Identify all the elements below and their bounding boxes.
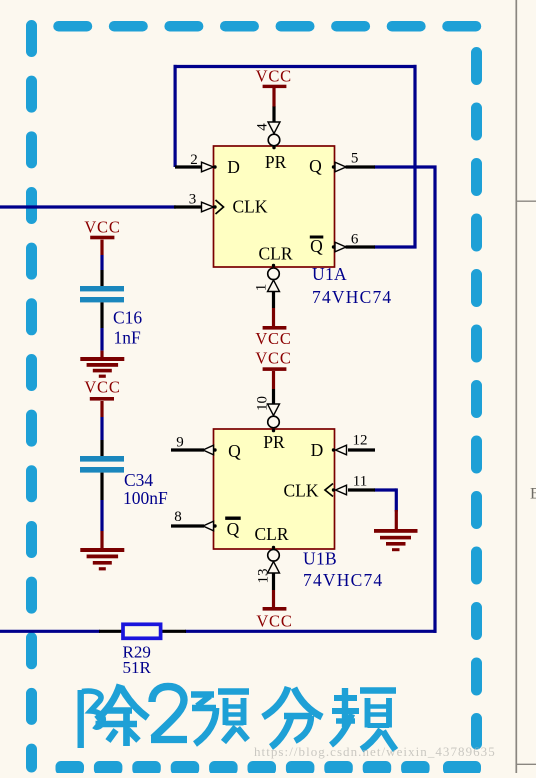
pin number 13 rotated <box>255 569 271 584</box>
svg-text:74VHC74: 74VHC74 <box>312 287 392 307</box>
pin 6 direction arrow <box>335 242 346 252</box>
pin number 3 <box>189 192 197 208</box>
title glyph 分 <box>263 687 322 747</box>
svg-text:Q: Q <box>310 236 323 256</box>
title glyph 频 <box>331 688 396 750</box>
svg-text:8: 8 <box>174 509 182 525</box>
pin number 5 <box>351 151 359 167</box>
flip-flop U1B body <box>214 429 335 549</box>
pin 13 arrow <box>268 562 280 574</box>
svg-text:D: D <box>227 157 240 177</box>
wire vertical Q to bottom <box>433 166 436 633</box>
title glyph 除 <box>81 685 148 749</box>
VCC symbol above C34 <box>84 378 120 401</box>
svg-text:5: 5 <box>351 151 359 167</box>
svg-text:CLK: CLK <box>233 197 268 217</box>
svg-text:1nF: 1nF <box>114 328 142 348</box>
svg-text:12: 12 <box>353 433 368 449</box>
pin R29 left stub <box>99 630 124 633</box>
capacitor C34 <box>80 456 124 473</box>
pin 13 vertical stub <box>272 573 275 607</box>
U1B pin name PR <box>263 432 285 452</box>
C16 top lead <box>100 240 103 286</box>
U1A comment 74VHC74 <box>312 287 392 307</box>
svg-text:1: 1 <box>253 284 269 292</box>
pin 13 CLR bubble <box>268 550 280 562</box>
wire pin6 horizontal <box>374 245 417 248</box>
U1A clock chevron <box>216 200 224 214</box>
pin 3 direction arrow <box>202 202 214 212</box>
R29 value 51R <box>123 658 152 677</box>
wire vertical Qbar feedback <box>413 65 416 249</box>
pin number 8 <box>174 509 182 525</box>
svg-text:U1B: U1B <box>303 549 337 569</box>
pin 11 direction arrow <box>336 485 347 495</box>
pin 2 stub <box>175 165 202 168</box>
U1B pin name Q <box>228 441 241 461</box>
svg-text:74VHC74: 74VHC74 <box>303 570 383 590</box>
pin 9 stub <box>171 448 204 451</box>
svg-text:Q: Q <box>228 441 241 461</box>
pin 6 stub <box>346 245 376 248</box>
svg-text:Q: Q <box>309 156 322 176</box>
svg-text:https://blog.csdn.net/weixin_4: https://blog.csdn.net/weixin_43789635 <box>254 744 496 759</box>
pin R29 right stub <box>161 630 186 633</box>
svg-text:PR: PR <box>263 432 285 452</box>
pin 11 stub <box>348 488 375 491</box>
pin 8 direction arrow <box>203 521 214 531</box>
dashed highlight border right <box>471 53 482 745</box>
U1B clock chevron <box>325 484 333 497</box>
sheet zone letter B <box>530 486 536 503</box>
wire CLK input from left edge <box>0 205 176 208</box>
dashed highlight border bottom <box>56 761 482 775</box>
svg-text:C16: C16 <box>113 308 142 328</box>
capacitor C16 <box>80 286 124 302</box>
pin number 2 <box>190 152 198 168</box>
pin 8 stub <box>171 524 204 527</box>
U1A pin name CLK <box>233 197 268 217</box>
pin 12 direction arrow <box>336 445 347 455</box>
svg-text:3: 3 <box>189 192 197 208</box>
pin number 1 rotated <box>253 284 269 292</box>
pin 1 arrow <box>268 280 280 292</box>
svg-text:9: 9 <box>176 435 184 451</box>
pin 12 stub <box>348 448 375 451</box>
svg-text:VCC: VCC <box>256 612 292 631</box>
R29 designator <box>123 643 151 662</box>
pin number 9 <box>176 435 184 451</box>
U1A pin name D <box>227 157 240 177</box>
pin 4 arrow <box>268 122 280 134</box>
wire pin11 to ground <box>374 488 397 511</box>
svg-text:D: D <box>311 440 324 460</box>
svg-text:100nF: 100nF <box>123 488 168 508</box>
dashed highlight border left <box>26 26 37 768</box>
wire vertical to pin2 D <box>174 65 177 167</box>
svg-text:VCC: VCC <box>255 329 291 348</box>
pin 3 stub <box>174 205 202 208</box>
svg-text:VCC: VCC <box>84 218 120 237</box>
svg-text:2: 2 <box>190 152 198 168</box>
pin 5 direction arrow <box>335 162 346 172</box>
svg-text:C34: C34 <box>124 470 153 490</box>
U1A pin name CLR <box>258 243 292 263</box>
svg-text:CLK: CLK <box>284 481 319 501</box>
svg-text:B: B <box>530 486 536 503</box>
svg-text:6: 6 <box>351 232 359 248</box>
pin 9 direction arrow <box>203 445 214 455</box>
wire bottom left of R29 <box>0 630 100 633</box>
watermark <box>254 744 496 759</box>
VCC symbol above U1A <box>256 67 292 89</box>
svg-text:U1A: U1A <box>312 264 347 284</box>
pin 2 direction arrow <box>202 162 214 172</box>
svg-text:Q: Q <box>227 519 240 539</box>
pin 1 CLR bubble <box>268 268 280 280</box>
pin 10 vertical stub <box>272 371 275 404</box>
wire bottom right of R29 <box>185 630 437 633</box>
C16 value 1nF <box>114 328 142 348</box>
pin number 12 <box>353 433 368 449</box>
title glyph 2 <box>151 687 187 740</box>
VCC symbol below U1B inverted <box>256 607 292 631</box>
pin 10 arrow <box>268 404 280 416</box>
svg-text:4: 4 <box>254 123 270 131</box>
C34 designator <box>124 470 153 490</box>
svg-text:CLR: CLR <box>258 243 292 263</box>
sheet frame tick top <box>516 200 536 202</box>
pin number 4 rotated <box>254 123 270 131</box>
ground below C16 <box>80 357 124 378</box>
U1A pin name Q <box>309 156 322 176</box>
svg-text:51R: 51R <box>123 658 152 677</box>
pin 10 PR bubble <box>268 416 280 428</box>
sheet frame gray vertical line <box>515 0 517 773</box>
C16 designator <box>113 308 142 328</box>
svg-text:VCC: VCC <box>255 349 291 368</box>
U1A pin name PR <box>265 152 287 172</box>
U1B pin name Qbar <box>225 517 241 540</box>
ground below C34 <box>80 548 124 570</box>
U1B pin name CLK <box>284 481 319 501</box>
pin number 11 <box>353 474 367 490</box>
pin number 6 <box>351 232 359 248</box>
U1B designator <box>303 549 337 569</box>
pin 4 vertical stub <box>272 87 275 122</box>
pin 5 stub <box>346 165 376 168</box>
VCC symbol below U1A inverted <box>255 326 291 348</box>
title glyph 预 <box>191 692 249 745</box>
C34 bottom lead <box>100 473 103 549</box>
C34 value 100nF <box>123 488 168 508</box>
U1A designator <box>312 264 347 284</box>
U1B pin name D <box>311 440 324 460</box>
U1A pin name Qbar <box>310 236 324 257</box>
pin number 10 rotated <box>254 396 270 411</box>
resistor R29 <box>123 624 161 638</box>
svg-text:11: 11 <box>353 474 367 490</box>
ground at pin 11 <box>374 529 418 551</box>
pin 1 vertical stub <box>272 292 275 327</box>
svg-text:CLR: CLR <box>254 524 288 544</box>
VCC symbol above U1B <box>255 349 291 371</box>
pin 4 PR bubble <box>268 134 280 146</box>
pin 11 ground stem <box>395 510 398 530</box>
sheet frame tick bottom <box>516 763 536 765</box>
U1B comment 74VHC74 <box>303 570 383 590</box>
C16 bottom lead <box>100 302 103 358</box>
C34 top lead <box>100 401 103 456</box>
wire top feedback horizontal <box>174 65 417 68</box>
dashed highlight border top <box>59 21 477 32</box>
U1B pin name CLR <box>254 524 288 544</box>
flip-flop U1A body <box>214 146 335 267</box>
pin root dots <box>213 146 335 549</box>
wire pin5 horizontal <box>374 165 437 168</box>
svg-text:VCC: VCC <box>256 67 292 86</box>
svg-text:PR: PR <box>265 152 287 172</box>
VCC symbol above C16 <box>84 218 120 240</box>
svg-text:VCC: VCC <box>84 378 120 397</box>
